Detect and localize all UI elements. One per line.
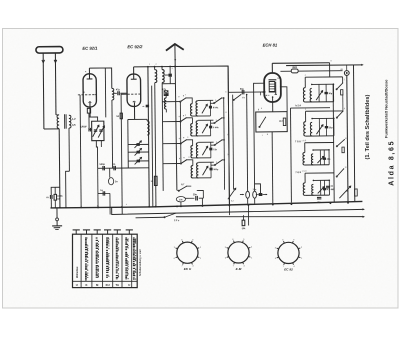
svg-text:7: 7 bbox=[182, 266, 183, 268]
svg-text:3: 3 bbox=[275, 247, 276, 249]
svg-text:5: 5 bbox=[331, 60, 332, 62]
svg-text:Schalterstellung v. vorn: Schalterstellung v. vorn bbox=[139, 249, 142, 276]
svg-text:1: 1 bbox=[262, 135, 263, 137]
svg-text:Alda 8,65: Alda 8,65 bbox=[389, 140, 396, 186]
svg-text:EC 92/1: EC 92/1 bbox=[82, 46, 98, 51]
svg-text:EK U: EK U bbox=[184, 267, 192, 271]
svg-text:4,5: 4,5 bbox=[72, 123, 76, 127]
svg-text:50p: 50p bbox=[240, 89, 245, 91]
svg-text:6: 6 bbox=[344, 108, 345, 110]
svg-text:e: e bbox=[126, 204, 127, 206]
svg-text:3: 3 bbox=[178, 96, 179, 98]
svg-text:2: 2 bbox=[251, 247, 252, 249]
svg-text:0: 0 bbox=[225, 258, 226, 260]
svg-text:b 2 A: b 2 A bbox=[295, 104, 301, 107]
svg-text:U: U bbox=[128, 283, 130, 287]
svg-text:Funkwerkstatt Neustadt/Dosse: Funkwerkstatt Neustadt/Dosse bbox=[384, 79, 389, 138]
svg-text:6: 6 bbox=[188, 157, 189, 159]
svg-text:b: b bbox=[261, 108, 262, 110]
svg-text:47p: 47p bbox=[116, 88, 121, 91]
svg-text:1: 1 bbox=[215, 100, 216, 102]
svg-text:9: 9 bbox=[192, 239, 193, 241]
svg-text:2: 2 bbox=[344, 79, 345, 81]
svg-text:m: m bbox=[142, 106, 144, 108]
svg-text:5: 5 bbox=[183, 157, 184, 159]
svg-text:1: 1 bbox=[216, 120, 217, 122]
svg-text:2M2: 2M2 bbox=[292, 67, 297, 69]
svg-text:2 F s: 2 F s bbox=[174, 220, 180, 222]
svg-text:10: 10 bbox=[345, 138, 347, 140]
svg-text:m: m bbox=[341, 69, 343, 71]
svg-text:30p: 30p bbox=[327, 159, 331, 161]
svg-text:1: 1 bbox=[149, 64, 150, 66]
svg-text:5: 5 bbox=[183, 115, 184, 117]
svg-text:6: 6 bbox=[225, 92, 226, 94]
svg-text:d: d bbox=[97, 205, 98, 207]
svg-text:20p: 20p bbox=[329, 127, 333, 129]
svg-text:K: K bbox=[85, 283, 87, 287]
svg-text:5: 5 bbox=[183, 137, 184, 139]
svg-text:7 G 8: 7 G 8 bbox=[295, 141, 301, 143]
svg-text:5: 5 bbox=[183, 95, 184, 97]
svg-text:ECH 81: ECH 81 bbox=[263, 42, 278, 47]
svg-text:500p: 500p bbox=[100, 164, 106, 166]
svg-text:TA: TA bbox=[116, 283, 120, 287]
svg-text:9: 9 bbox=[293, 240, 294, 242]
svg-text:9: 9 bbox=[243, 239, 244, 241]
svg-text:9: 9 bbox=[227, 154, 228, 156]
svg-text:7: 7 bbox=[185, 95, 186, 97]
svg-text:7 G 8: 7 G 8 bbox=[295, 172, 301, 174]
svg-text:1: 1 bbox=[216, 142, 217, 144]
svg-text:30p: 30p bbox=[328, 93, 332, 95]
svg-text:UKW: UKW bbox=[80, 125, 87, 128]
svg-text:3: 3 bbox=[225, 247, 226, 249]
svg-text:4: 4 bbox=[187, 137, 188, 139]
svg-text:KU: KU bbox=[106, 283, 110, 287]
svg-text:4: 4 bbox=[305, 75, 306, 77]
svg-text:7: 7 bbox=[233, 265, 234, 267]
svg-text:1 G 8: 1 G 8 bbox=[302, 171, 307, 173]
svg-text:6: 6 bbox=[232, 239, 233, 241]
svg-text:1: 1 bbox=[301, 258, 302, 260]
svg-text:U: U bbox=[76, 283, 78, 287]
svg-text:1: 1 bbox=[251, 258, 252, 260]
svg-text:1: 1 bbox=[200, 258, 201, 260]
svg-text:25n: 25n bbox=[193, 193, 198, 196]
svg-text:50p: 50p bbox=[242, 97, 245, 99]
svg-text:4: 4 bbox=[294, 266, 295, 268]
svg-text:4: 4 bbox=[305, 109, 306, 111]
svg-text:0: 0 bbox=[275, 258, 276, 260]
svg-text:b: b bbox=[227, 134, 228, 136]
svg-text:8: 8 bbox=[226, 112, 227, 114]
svg-text:EC 92/2: EC 92/2 bbox=[127, 44, 143, 49]
svg-text:6: 6 bbox=[282, 240, 283, 242]
svg-text:3: 3 bbox=[179, 138, 180, 140]
svg-text:8 kHz: 8 kHz bbox=[213, 107, 218, 109]
svg-text:0: 0 bbox=[174, 258, 175, 260]
svg-text:1 G 8: 1 G 8 bbox=[302, 140, 307, 142]
svg-text:EC 92: EC 92 bbox=[284, 267, 293, 271]
svg-text:2: 2 bbox=[301, 247, 302, 249]
svg-text:10: 10 bbox=[345, 167, 347, 169]
svg-text:2m: 2m bbox=[277, 78, 280, 80]
svg-text:1: 1 bbox=[216, 162, 217, 164]
svg-text:Wellenber.: Wellenber. bbox=[76, 266, 79, 278]
svg-text:3: 3 bbox=[174, 247, 175, 249]
svg-text:2: 2 bbox=[200, 247, 201, 249]
svg-text:E-M: E-M bbox=[236, 267, 242, 271]
svg-text:4: 4 bbox=[192, 266, 193, 268]
svg-text:2: 2 bbox=[185, 115, 186, 117]
svg-text:2: 2 bbox=[156, 64, 157, 66]
svg-text:6: 6 bbox=[181, 239, 182, 241]
svg-text:3: 3 bbox=[179, 158, 180, 160]
svg-text:1,2: 1,2 bbox=[72, 117, 76, 121]
svg-text:8,2: 8,2 bbox=[231, 200, 234, 202]
svg-text:4: 4 bbox=[244, 265, 245, 267]
svg-text:500p: 500p bbox=[213, 169, 218, 171]
svg-text:6 kHz: 6 kHz bbox=[213, 127, 218, 129]
svg-text:(1. Teil des Schaltbildes): (1. Teil des Schaltbildes) bbox=[365, 94, 371, 159]
svg-text:3: 3 bbox=[179, 116, 180, 118]
